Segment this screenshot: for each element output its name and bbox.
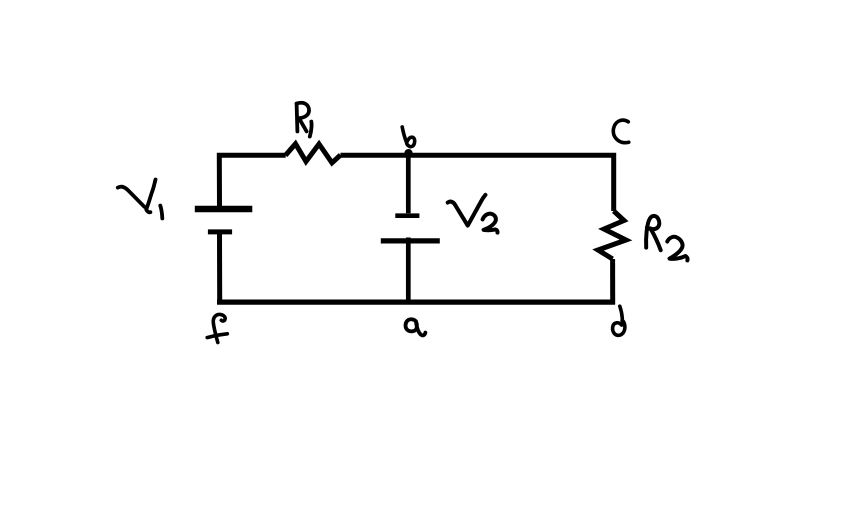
- wire: top-left corner a to battery V1 top: [219, 155, 285, 207]
- wire: R1 right through node b to top-right corner c, down to R2: [341, 155, 614, 211]
- label e: [406, 319, 426, 335]
- label f: [207, 314, 227, 342]
- label V1: [118, 180, 163, 219]
- resistor R1: [286, 144, 341, 163]
- label V2: [448, 195, 498, 233]
- label d: [613, 306, 625, 335]
- wire: battery V2 bottom to node e: [406, 238, 411, 302]
- wire: battery V1 bottom to node f: [217, 234, 222, 305]
- node b junction dot: [404, 149, 412, 157]
- wire: R2 bottom to node d: [610, 259, 615, 304]
- battery V2 bottom plate (long): [381, 238, 440, 243]
- label b: [402, 127, 414, 147]
- label c: [613, 120, 628, 143]
- wire: bottom rail f to e to d: [217, 299, 615, 304]
- battery V1 bottom plate (short): [208, 229, 232, 234]
- label R1: [297, 103, 312, 137]
- battery V2 top plate (short): [395, 213, 419, 218]
- wire: node b down to battery V2: [406, 157, 411, 214]
- battery V1 top plate (long): [195, 206, 253, 213]
- label R2: [646, 216, 687, 260]
- resistor R2: [598, 211, 626, 259]
